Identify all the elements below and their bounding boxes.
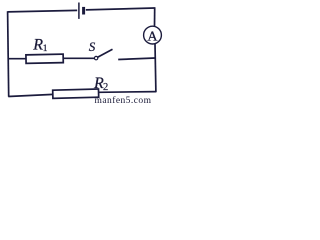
switch S: pivot circle	[94, 56, 97, 59]
switch S: blade	[98, 49, 113, 57]
wire top-left (left corner to battery)	[8, 10, 78, 12]
battery cell: short thick plate	[82, 7, 85, 15]
ammeter A: circle	[144, 26, 162, 44]
wire switch right stub (to right vertical)	[118, 58, 155, 60]
wire left vertical	[8, 11, 9, 97]
svg-text:manfen5.com: manfen5.com	[95, 95, 152, 105]
svg-text:S: S	[89, 39, 96, 54]
wire middle-left (left wire to R1)	[8, 58, 27, 60]
wire middle-mid (R1 to switch pivot)	[63, 57, 94, 59]
wire right vertical upper (to ammeter)	[154, 7, 156, 26]
svg-text:1: 1	[43, 44, 48, 54]
wire bottom-right (R2 to bottom-right corner)	[99, 91, 156, 94]
battery cell: long plate	[78, 3, 80, 19]
wire bottom-left (left corner to R2)	[8, 94, 53, 96]
resistor R1 box	[26, 54, 63, 63]
wire top-right (battery to top-right corner)	[86, 8, 155, 10]
resistor R2 box	[53, 89, 99, 98]
svg-text:R: R	[32, 37, 43, 54]
wire right vertical lower (ammeter to bottom-right corner)	[154, 44, 157, 92]
svg-text:A: A	[147, 29, 158, 44]
